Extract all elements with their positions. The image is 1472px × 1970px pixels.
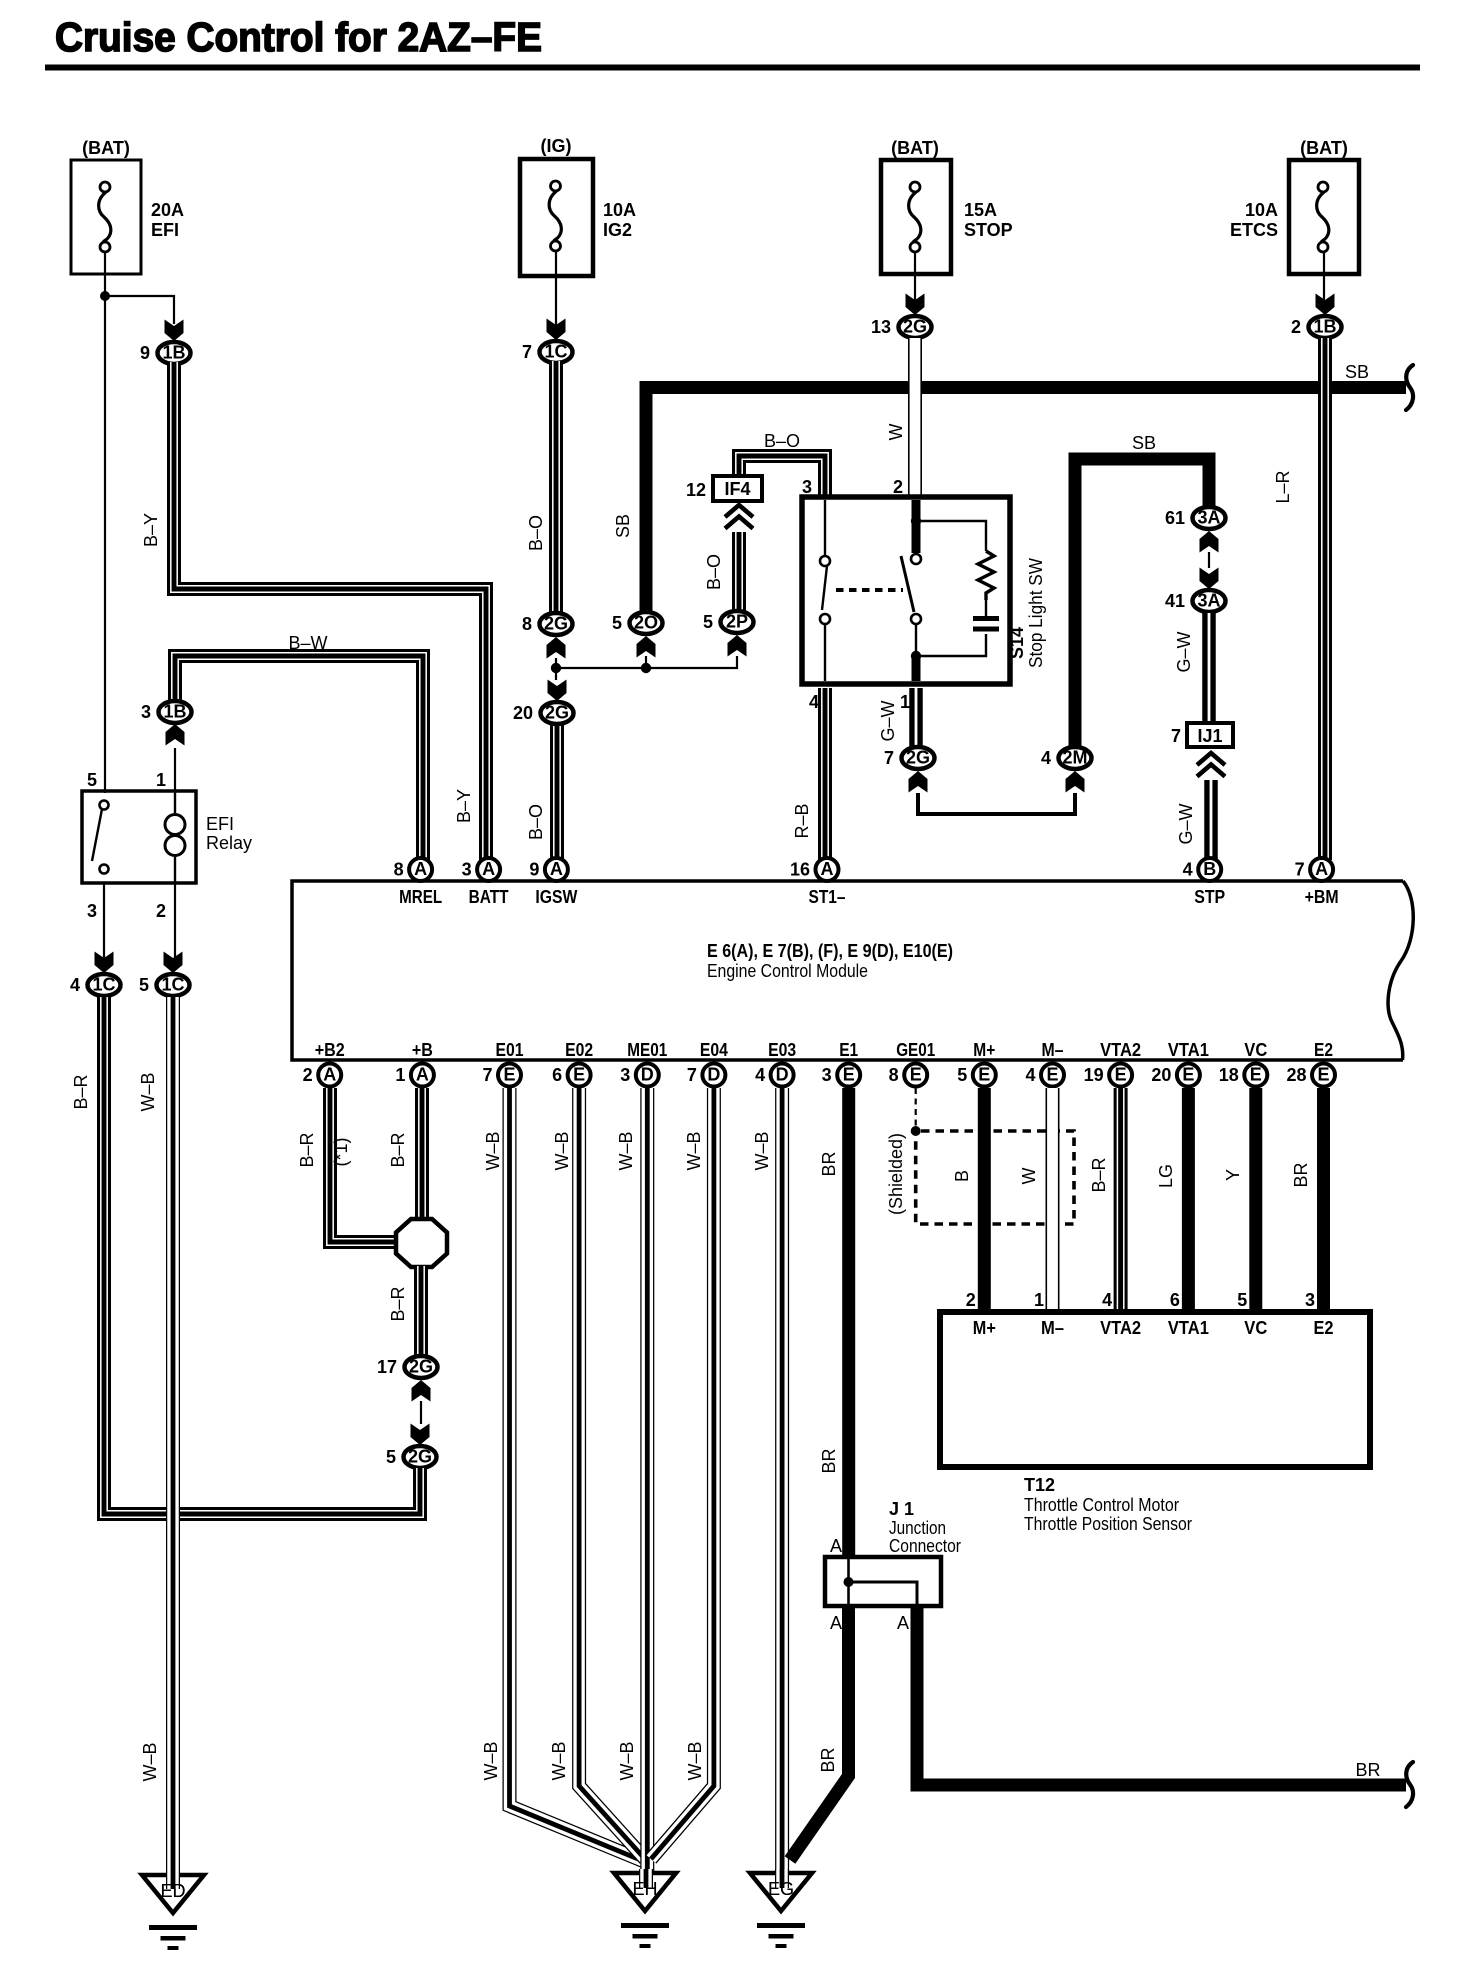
label B-O vertical at 2P: [704, 554, 724, 590]
wire B-R loop from 1C pin4 to 2G pin5: [101, 997, 423, 1517]
T12 pin VTA1: [1168, 1290, 1209, 1338]
connector 1C pin 5: [139, 974, 190, 996]
svg-text:61: 61: [1165, 508, 1185, 528]
svg-text:2: 2: [1291, 317, 1301, 337]
svg-text:7: 7: [1171, 726, 1181, 746]
curl at SB bus end: [1406, 365, 1413, 410]
svg-text:3: 3: [87, 901, 97, 921]
svg-text:9: 9: [140, 343, 150, 363]
label W-B ME01: [616, 1131, 636, 1170]
fuse 20A EFI: [71, 138, 184, 274]
svg-text:B–R: B–R: [388, 1132, 408, 1167]
shield dashed box: [916, 1131, 1074, 1224]
wire B-O from 1C down to 2G pin8: [553, 361, 559, 614]
svg-text:4: 4: [1183, 860, 1193, 880]
label S14 Stop Light SW: [1007, 558, 1046, 668]
svg-text:W–B: W–B: [140, 1742, 160, 1781]
svg-text:A: A: [323, 1065, 336, 1085]
svg-text:L–R: L–R: [1273, 470, 1293, 503]
svg-text:G–W: G–W: [1174, 631, 1194, 672]
svg-text:(BAT): (BAT): [891, 138, 939, 158]
label A above J1: [830, 1536, 842, 1556]
svg-text:E2: E2: [1314, 1318, 1334, 1338]
wire IG fuse tail: [555, 252, 557, 328]
label L-R vertical: [1273, 470, 1293, 503]
label (*1): [331, 1137, 351, 1166]
wire R-B from switch pin 4 to ST1-: [822, 688, 828, 860]
wire EFI fuse to junction and relay pin 5: [105, 252, 174, 793]
svg-text:W–B: W–B: [685, 1741, 705, 1780]
arrow into connector 1B pin 9: [165, 320, 184, 342]
label R-B vertical: [792, 803, 812, 838]
J1 internal wires: [849, 1557, 918, 1606]
svg-text:3: 3: [802, 477, 812, 497]
connector 1C pin 4: [70, 974, 121, 996]
label (Shielded): [886, 1133, 906, 1215]
svg-text:1C: 1C: [161, 975, 184, 995]
svg-text:W–B: W–B: [483, 1131, 503, 1170]
label G-W at switch pin 1: [878, 700, 898, 741]
svg-text:1: 1: [395, 1065, 405, 1085]
svg-text:7: 7: [884, 748, 894, 768]
T12 pin E2: [1305, 1290, 1334, 1338]
svg-text:2: 2: [156, 901, 166, 921]
wire B from M+ to T12: [978, 1088, 991, 1315]
junction dot switch top right: [911, 516, 921, 526]
svg-text:EH: EH: [632, 1879, 657, 1899]
T12 Throttle Control Motor box: [940, 1312, 1370, 1534]
svg-text:E: E: [503, 1065, 515, 1085]
T12 pin M+: [966, 1290, 996, 1338]
svg-text:3: 3: [620, 1065, 630, 1085]
svg-text:7: 7: [687, 1065, 697, 1085]
connector 2G pin 5: [386, 1446, 437, 1468]
svg-text:ED: ED: [160, 1881, 185, 1901]
svg-text:(BAT): (BAT): [1300, 138, 1348, 158]
svg-text:3A: 3A: [1197, 508, 1220, 528]
ECM pin E01 bottom: [482, 1040, 523, 1087]
svg-text:(BAT): (BAT): [82, 138, 130, 158]
svg-text:Engine Control Module: Engine Control Module: [707, 961, 868, 981]
svg-text:7: 7: [1295, 860, 1305, 880]
svg-text:B–Y: B–Y: [141, 513, 161, 547]
wire G-W from 3A to IJ1: [1202, 613, 1216, 725]
wire BR from J1 right to right edge: [917, 1606, 1406, 1785]
svg-text:2O: 2O: [634, 613, 658, 633]
svg-text:E 6(A), E 7(B), (F), E 9(D), E: E 6(A), E 7(B), (F), E 9(D), E10(E): [707, 941, 953, 961]
svg-text:E: E: [910, 1065, 922, 1085]
arrow into 3A pin 61: [1200, 531, 1219, 553]
label W at M-: [1019, 1168, 1039, 1185]
svg-text:BR: BR: [1291, 1162, 1311, 1187]
svg-text:Throttle Control Motor: Throttle Control Motor: [1024, 1495, 1179, 1515]
svg-text:IJ1: IJ1: [1197, 726, 1222, 746]
wire relay pin1 up to 1B pin3: [174, 748, 176, 791]
label B-R at +B2: [297, 1132, 317, 1167]
svg-text:4: 4: [1041, 748, 1051, 768]
svg-text:E: E: [1317, 1065, 1329, 1085]
capacitor inside S14: [973, 616, 999, 632]
label W-B E03: [752, 1131, 772, 1170]
svg-text:+B: +B: [412, 1040, 433, 1060]
label B-O vertical lower: [526, 804, 546, 840]
svg-text:BATT: BATT: [469, 887, 509, 907]
svg-text:BR: BR: [818, 1747, 838, 1772]
ECM pin GE01 bottom: [889, 1040, 936, 1087]
wire W-B from E01 to EH: [510, 1088, 644, 1861]
svg-text:2G: 2G: [903, 317, 927, 337]
svg-text:E: E: [1115, 1065, 1127, 1085]
svg-text:E: E: [978, 1065, 990, 1085]
wire stub into EG: [768, 1869, 794, 1899]
svg-text:B–R: B–R: [71, 1074, 91, 1109]
svg-text:Cruise Control for 2AZ–FE: Cruise Control for 2AZ–FE: [55, 14, 542, 60]
fuse 10A ETCS: [1230, 138, 1359, 274]
connector IJ1: [1171, 723, 1233, 747]
ECM pin +BM: [1295, 858, 1339, 907]
svg-text:E01: E01: [496, 1040, 524, 1060]
svg-text:2: 2: [966, 1290, 976, 1310]
dashed mechanical link: [836, 588, 903, 592]
ECM pin ME01 bottom: [620, 1040, 667, 1087]
svg-text:W–B: W–B: [481, 1741, 501, 1780]
label W-B E01: [483, 1131, 503, 1170]
label B at M+: [952, 1170, 972, 1182]
label BR near EG: [818, 1747, 838, 1772]
svg-text:EFI: EFI: [151, 220, 179, 240]
svg-text:5: 5: [1237, 1290, 1247, 1310]
wire BR from E1 to J1: [842, 1088, 855, 1560]
label LG: [1156, 1164, 1176, 1188]
wire B-R from VTA2 to T12: [1117, 1088, 1123, 1315]
ECM pin E02 bottom: [552, 1040, 593, 1087]
svg-text:IF4: IF4: [724, 479, 750, 499]
relay switch contacts: [92, 801, 109, 874]
svg-text:3: 3: [462, 860, 472, 880]
label BR above J1: [819, 1448, 839, 1473]
svg-text:W–B: W–B: [684, 1131, 704, 1170]
wire W from M- to T12: [1046, 1088, 1060, 1310]
label B-W: [288, 633, 327, 653]
svg-text:A: A: [897, 1613, 909, 1633]
svg-text:B–O: B–O: [764, 431, 800, 451]
shield drain dashed from GE01: [915, 1088, 917, 1126]
svg-text:ME01: ME01: [627, 1040, 667, 1060]
svg-text:W: W: [1019, 1168, 1039, 1185]
wire W-B from E02 to EH: [579, 1088, 645, 1859]
connector 2G pin 7: [884, 747, 935, 769]
connector 2G pin 20: [513, 702, 574, 724]
svg-text:4: 4: [1102, 1290, 1112, 1310]
splice octagon: [396, 1219, 447, 1267]
svg-text:B–Y: B–Y: [454, 789, 474, 823]
svg-text:7: 7: [522, 342, 532, 362]
svg-text:+B2: +B2: [315, 1040, 345, 1060]
wire B-Y from 1B to BATT: [171, 362, 489, 860]
arrow into connector 2P: [728, 635, 747, 657]
svg-text:VTA1: VTA1: [1168, 1318, 1209, 1338]
ECM pin M+ bottom: [957, 1040, 996, 1087]
svg-text:A: A: [416, 1065, 429, 1085]
svg-text:Throttle Position Sensor: Throttle Position Sensor: [1024, 1514, 1192, 1534]
label B-R at VTA2: [1089, 1157, 1109, 1192]
svg-text:EG: EG: [768, 1879, 794, 1899]
svg-text:B–O: B–O: [526, 804, 546, 840]
svg-text:8: 8: [394, 860, 404, 880]
svg-text:16: 16: [790, 860, 810, 880]
svg-text:10A: 10A: [1245, 200, 1278, 220]
arrow into 2G pin 7: [909, 771, 928, 793]
label W vertical: [886, 424, 906, 441]
svg-text:ST1–: ST1–: [809, 887, 846, 907]
shield junction dot: [911, 1126, 921, 1136]
svg-text:2G: 2G: [409, 1357, 433, 1377]
ECM pin E2 bottom: [1286, 1040, 1335, 1087]
svg-text:E: E: [1250, 1065, 1262, 1085]
link wire between 3A connectors: [1208, 552, 1210, 568]
resistor inside S14: [978, 551, 994, 617]
svg-text:A: A: [830, 1613, 842, 1633]
svg-text:VC: VC: [1244, 1318, 1267, 1338]
svg-text:VTA2: VTA2: [1100, 1318, 1141, 1338]
wire stub into EH: [632, 1869, 657, 1899]
label B-R below splice: [388, 1286, 408, 1321]
wire B-W from 1B pin3 to MREL: [172, 653, 426, 860]
fuse 10A IG2: [520, 136, 636, 276]
svg-text:VTA1: VTA1: [1168, 1040, 1209, 1060]
label BR at right edge: [1355, 1760, 1380, 1780]
svg-text:B–W: B–W: [288, 633, 327, 653]
svg-text:9: 9: [529, 860, 539, 880]
svg-text:20A: 20A: [151, 200, 184, 220]
label B-R at 1C pin4: [71, 1074, 91, 1109]
wire L-R from 1B pin2 to +BM: [1322, 338, 1328, 860]
svg-text:SB: SB: [1345, 362, 1369, 382]
junction dot below EFI fuse: [100, 291, 110, 301]
link wire 2G17 to 2G5: [420, 1401, 422, 1424]
ECM pin +B bottom: [395, 1040, 434, 1087]
label W-B E02 lower: [549, 1741, 569, 1780]
svg-text:D: D: [641, 1065, 654, 1085]
wire W-B from 1C pin5 to ED ground: [166, 997, 180, 1878]
label BR at E2: [1291, 1162, 1311, 1187]
chevron arrows into IF4: [725, 505, 753, 529]
ground EH: [614, 1873, 676, 1948]
svg-text:B–R: B–R: [297, 1132, 317, 1167]
arrow into 2G pin 17: [412, 1380, 431, 1402]
arrow into 2M pin 4: [1066, 771, 1085, 793]
svg-text:M+: M+: [973, 1040, 995, 1060]
svg-text:B: B: [1203, 859, 1216, 879]
svg-text:20: 20: [513, 703, 533, 723]
switch pin labels 3 2 4 1: [802, 477, 910, 712]
svg-text:W–B: W–B: [552, 1131, 572, 1170]
wire SB bus from connector 2O to right edge: [646, 388, 1406, 615]
svg-text:(Shielded): (Shielded): [886, 1133, 906, 1215]
svg-text:3: 3: [141, 702, 151, 722]
ECM pin E04 bottom: [687, 1040, 728, 1087]
svg-text:3: 3: [1305, 1290, 1315, 1310]
svg-text:J 1: J 1: [889, 1499, 914, 1519]
wire B-R from +B2 to splice: [327, 1088, 400, 1245]
svg-text:B–O: B–O: [526, 515, 546, 551]
svg-text:2G: 2G: [544, 614, 568, 634]
arrow into 1C pin 5: [164, 952, 183, 974]
label SB vertical at 2O: [613, 514, 633, 538]
T12 pin VTA2: [1100, 1290, 1141, 1338]
svg-text:5: 5: [386, 1447, 396, 1467]
svg-text:E03: E03: [768, 1040, 796, 1060]
wire BR from E2 to T12: [1317, 1088, 1330, 1315]
svg-text:4: 4: [755, 1065, 765, 1085]
svg-text:W–B: W–B: [138, 1072, 158, 1111]
svg-text:ETCS: ETCS: [1230, 220, 1278, 240]
svg-text:D: D: [707, 1065, 720, 1085]
svg-text:5: 5: [957, 1065, 967, 1085]
svg-text:2P: 2P: [726, 612, 748, 632]
svg-text:STP: STP: [1194, 887, 1225, 907]
wire relay pin 3 down: [103, 883, 105, 961]
svg-text:1B: 1B: [163, 702, 186, 722]
svg-text:W–B: W–B: [549, 1741, 569, 1780]
arrow into 2G pin 8 from below: [547, 637, 566, 659]
Engine Control Module box: [292, 881, 1413, 1060]
svg-text:A: A: [414, 859, 427, 879]
svg-text:R–B: R–B: [792, 803, 812, 838]
svg-text:2G: 2G: [906, 748, 930, 768]
junction dot at 646,668: [641, 663, 651, 673]
junction connector J1 box: [825, 1499, 961, 1606]
ECM pin E1 bottom: [822, 1040, 861, 1087]
svg-text:Y: Y: [1223, 1169, 1243, 1181]
svg-text:M–: M–: [1041, 1318, 1064, 1338]
svg-text:A: A: [821, 859, 834, 879]
svg-text:W–B: W–B: [617, 1741, 637, 1780]
svg-text:2G: 2G: [545, 703, 569, 723]
svg-text:28: 28: [1286, 1065, 1306, 1085]
arrow into connector 1B pin 2: [1316, 294, 1335, 316]
wire B-O from 2G pin20 down to IGSW: [554, 723, 560, 860]
label W-B E04: [684, 1131, 704, 1170]
arrow into 3A pin 41: [1200, 568, 1219, 590]
svg-text:17: 17: [377, 1357, 397, 1377]
svg-text:6: 6: [1170, 1290, 1180, 1310]
ground ED: [142, 1875, 204, 1950]
connector 1B pin 3: [141, 701, 192, 723]
ECM pin STP: [1183, 858, 1226, 907]
svg-text:2: 2: [893, 477, 903, 497]
svg-text:1C: 1C: [544, 342, 567, 362]
wire BR from J1 left to EG: [790, 1606, 849, 1860]
ECM pin +B2 bottom: [303, 1040, 345, 1087]
relay pin labels 5 1 3 2: [87, 770, 166, 921]
EFI relay box: [82, 791, 252, 883]
svg-text:BR: BR: [1355, 1760, 1380, 1780]
svg-text:EFI: EFI: [206, 814, 234, 834]
connector 2M pin 4: [1041, 747, 1092, 769]
svg-text:3: 3: [822, 1065, 832, 1085]
svg-text:MREL: MREL: [399, 887, 442, 907]
connector 2G pin 8: [522, 613, 573, 635]
svg-text:LG: LG: [1156, 1164, 1176, 1188]
svg-text:E1: E1: [839, 1040, 858, 1060]
arrow into connector 1C pin 7: [547, 319, 566, 341]
wire stub into ED: [160, 1871, 185, 1901]
svg-text:B–O: B–O: [704, 554, 724, 590]
switch left pole: [820, 500, 830, 681]
svg-text:B: B: [952, 1170, 972, 1182]
svg-text:1B: 1B: [162, 343, 185, 363]
svg-text:6: 6: [552, 1065, 562, 1085]
wire W from 2G pin13 to switch pin 2: [908, 338, 922, 495]
connector IF4: [686, 476, 762, 501]
svg-text:E02: E02: [565, 1040, 593, 1060]
label W-B E04 lower: [685, 1741, 705, 1780]
junction dot switch bottom right: [911, 651, 921, 661]
connector 1C pin 7: [522, 341, 573, 363]
label BR at E1: [819, 1151, 839, 1176]
arrow into connector 2G pin 13: [906, 294, 925, 316]
label B-O vertical upper: [526, 515, 546, 551]
svg-text:SB: SB: [613, 514, 633, 538]
svg-text:(*1): (*1): [331, 1137, 351, 1166]
label SB at bus end: [1345, 362, 1369, 382]
svg-text:B–R: B–R: [388, 1286, 408, 1321]
ECM pin MREL: [394, 858, 443, 907]
svg-text:1B: 1B: [1313, 317, 1336, 337]
svg-text:1C: 1C: [92, 975, 115, 995]
wire B-O loop from IF4 to stop light switch pin 3: [736, 453, 828, 495]
connector 2O pin 5: [612, 612, 663, 634]
label G-W lower right: [1176, 803, 1196, 844]
svg-text:IGSW: IGSW: [535, 887, 577, 907]
label B-Y vertical upper: [141, 513, 161, 547]
wire ETCS fuse tail: [1323, 252, 1325, 303]
ECM pin M– bottom: [1025, 1040, 1064, 1087]
T12 pin M–: [1034, 1290, 1064, 1338]
arrow into 1C pin 4: [95, 952, 114, 974]
svg-text:M+: M+: [973, 1318, 996, 1338]
label G-W upper right: [1174, 631, 1194, 672]
svg-text:E2: E2: [1314, 1040, 1333, 1060]
resistor branch wires: [921, 521, 986, 656]
svg-text:3A: 3A: [1197, 591, 1220, 611]
svg-text:5: 5: [612, 613, 622, 633]
svg-text:1: 1: [1034, 1290, 1044, 1310]
label B-O horizontal: [764, 431, 800, 451]
ECM pin VC bottom: [1219, 1040, 1268, 1087]
svg-text:(IG): (IG): [541, 136, 572, 156]
svg-text:4: 4: [809, 692, 819, 712]
wire STOP fuse tail: [914, 252, 916, 303]
svg-text:18: 18: [1219, 1065, 1239, 1085]
junction dot at 556,668: [551, 663, 561, 673]
svg-text:2M: 2M: [1062, 748, 1087, 768]
arrow into connector 2O: [637, 636, 656, 658]
wire W-B from ME01 to EH: [640, 1088, 654, 1878]
ground EG: [750, 1873, 812, 1948]
wire W-B from E04 to EH: [651, 1088, 714, 1859]
wire W-B from E03 to EG: [775, 1088, 789, 1876]
label W-B ME01 lower: [617, 1741, 637, 1780]
ECM pin VTA2 bottom: [1084, 1040, 1142, 1087]
svg-text:W–B: W–B: [752, 1131, 772, 1170]
wire LG from VTA1 to T12: [1182, 1088, 1195, 1315]
svg-text:8: 8: [522, 614, 532, 634]
svg-text:S14: S14: [1007, 627, 1027, 659]
svg-text:D: D: [776, 1065, 789, 1085]
svg-text:20: 20: [1151, 1065, 1171, 1085]
